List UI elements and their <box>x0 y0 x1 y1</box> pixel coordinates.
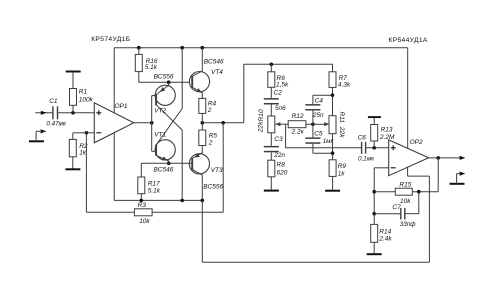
svg-text:22k: 22k <box>338 126 345 138</box>
svg-text:C1: C1 <box>49 98 58 105</box>
svg-text:R9: R9 <box>338 163 347 170</box>
svg-text:BC556: BC556 <box>154 74 174 81</box>
svg-text:0.47мк: 0.47мк <box>46 121 67 128</box>
svg-text:OP2: OP2 <box>410 139 423 146</box>
svg-text:2.2М: 2.2М <box>379 134 395 141</box>
svg-text:R10: R10 <box>258 109 265 121</box>
svg-text:BC546: BC546 <box>154 166 174 173</box>
svg-text:BC556: BC556 <box>203 183 223 190</box>
svg-text:C5: C5 <box>314 130 323 137</box>
svg-text:OP1: OP1 <box>115 103 128 110</box>
svg-text:10k: 10k <box>400 198 411 205</box>
svg-text:22n: 22n <box>273 152 285 159</box>
svg-text:C6: C6 <box>358 134 367 141</box>
svg-text:10k: 10k <box>139 218 150 225</box>
svg-text:R17: R17 <box>148 180 160 187</box>
svg-text:5.1k: 5.1k <box>145 64 158 71</box>
svg-text:VT4: VT4 <box>211 69 223 76</box>
svg-text:R12: R12 <box>292 113 304 120</box>
svg-text:C4: C4 <box>315 98 324 105</box>
svg-text:C3: C3 <box>274 136 283 143</box>
svg-text:C2: C2 <box>274 90 283 97</box>
svg-text:R15: R15 <box>399 181 411 188</box>
svg-text:КР574УД1Б: КР574УД1Б <box>91 36 131 43</box>
svg-text:1k: 1k <box>79 149 87 156</box>
svg-text:VT3: VT3 <box>211 167 223 174</box>
svg-text:25п: 25п <box>312 112 324 119</box>
svg-text:R8: R8 <box>277 161 286 168</box>
svg-text:КР544УД1А: КР544УД1А <box>388 37 428 44</box>
svg-text:22k: 22k <box>257 121 264 133</box>
svg-text:100k: 100k <box>79 96 94 103</box>
svg-text:0,1мк: 0,1мк <box>358 155 375 162</box>
svg-text:2: 2 <box>207 107 212 114</box>
svg-text:1k: 1k <box>338 170 346 177</box>
svg-text:BC546: BC546 <box>204 58 224 65</box>
svg-text:4.3k: 4.3k <box>338 81 351 88</box>
svg-text:2: 2 <box>208 139 213 146</box>
svg-text:R1: R1 <box>79 89 88 96</box>
svg-text:C7: C7 <box>392 204 401 211</box>
svg-text:5.1k: 5.1k <box>148 187 161 194</box>
svg-text:R14: R14 <box>379 229 391 236</box>
svg-text:R13: R13 <box>381 127 393 134</box>
svg-text:VT2: VT2 <box>154 107 166 114</box>
svg-text:2.4k: 2.4k <box>378 236 392 243</box>
svg-text:R11: R11 <box>338 111 345 123</box>
svg-text:R3: R3 <box>138 202 147 209</box>
svg-text:VT1: VT1 <box>154 132 166 139</box>
svg-text:2.2к: 2.2к <box>291 129 305 136</box>
svg-text:1,5k: 1,5k <box>276 81 289 88</box>
svg-text:33пф: 33пф <box>400 221 416 228</box>
svg-text:5п6: 5п6 <box>275 105 286 112</box>
svg-text:620: 620 <box>277 169 288 176</box>
